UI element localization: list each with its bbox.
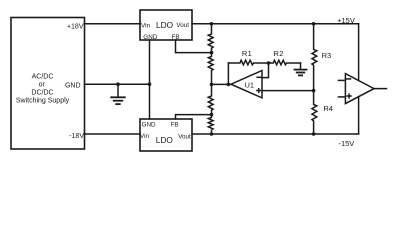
op-amp U2 non-inverting input stub	[339, 96, 346, 98]
svg-text:R4: R4	[323, 104, 333, 113]
minus sign U2	[347, 78, 351, 80]
svg-text:Vin: Vin	[141, 23, 150, 30]
wire -15V rail rise to op-amp V-	[358, 97, 360, 134]
op-amp U1 (points left)	[231, 71, 262, 98]
svg-text:AC/DC: AC/DC	[32, 74, 54, 81]
svg-text:FB: FB	[171, 34, 179, 41]
wire +15V rail drop to op-amp V+	[358, 24, 360, 81]
resistor R2	[269, 60, 301, 65]
wire U1 feedback drop (output to R1)	[227, 63, 229, 84]
svg-text:-15V: -15V	[338, 139, 354, 148]
svg-text:GND: GND	[142, 122, 156, 129]
node FB tap bottom	[210, 113, 214, 117]
svg-text:Vout: Vout	[176, 22, 189, 29]
wire GND from supply box	[85, 83, 150, 85]
svg-text:-18V: -18V	[69, 133, 84, 140]
resistor R1	[228, 60, 268, 65]
node R1 feedback junction	[227, 83, 231, 87]
svg-text:GND: GND	[65, 82, 81, 89]
svg-text:R2: R2	[274, 49, 284, 58]
svg-text:R3: R3	[322, 51, 332, 60]
AC/DC supply box	[11, 18, 85, 150]
node GND rail LDO column	[148, 82, 152, 86]
svg-text:DC/DC: DC/DC	[31, 90, 53, 97]
wire U1 output to divider mid node	[212, 83, 232, 85]
svg-text:+15V: +15V	[337, 16, 355, 25]
svg-text:Vin: Vin	[140, 133, 149, 140]
wire U1 non-inverting input to R3R4 mid node	[262, 90, 314, 92]
ground symbol on GND rail	[111, 84, 125, 104]
node divider mid	[210, 83, 214, 87]
junction dots	[116, 22, 315, 136]
node R4 bottom junction	[312, 132, 316, 136]
bottom LDO U3 box	[140, 119, 192, 151]
svg-text:LDO: LDO	[156, 135, 174, 145]
wire +18V supply to top LDO Vin	[85, 23, 141, 25]
resistor R4	[312, 91, 317, 134]
node R3 top junction	[312, 22, 316, 26]
svg-text:Vout: Vout	[178, 134, 191, 141]
svg-text:FB: FB	[171, 122, 179, 129]
resistor divider (FB tap to mid node)	[208, 53, 213, 85]
wire bottom LDO FB to divider tap	[176, 115, 212, 119]
top LDO U2 box	[140, 10, 192, 40]
op-amp U2 inverting input stub	[339, 79, 346, 81]
wire GND vertical between LDO GND pins	[149, 40, 151, 119]
resistor divider top (Vout to FB tap)	[208, 24, 213, 53]
resistor divider bottom (lower FB tap to Vout-)	[208, 115, 213, 134]
node GND rail ground tap	[116, 82, 120, 86]
node R3R4 mid	[312, 89, 316, 93]
plus sign U2	[347, 94, 351, 98]
svg-text:Switching Supply: Switching Supply	[16, 98, 70, 105]
minus sign U1	[257, 76, 261, 78]
node divider bottom junction	[210, 132, 214, 136]
wire R1R2 junction to U1 inverting input	[262, 63, 269, 78]
op-amp U2 right (points right)	[345, 74, 374, 104]
wire top LDO Vout to +15V rail	[192, 23, 359, 25]
wire bottom LDO Vout to -15V rail	[192, 133, 359, 135]
svg-text:+18V: +18V	[67, 24, 84, 31]
node R1R2 junction	[267, 61, 271, 65]
op-amp U2 output stub	[374, 88, 387, 90]
svg-text:LDO: LDO	[156, 20, 174, 30]
node divider top junction	[210, 22, 214, 26]
resistor R3	[312, 24, 317, 91]
wire -18V supply to bottom LDO Vin	[85, 133, 141, 135]
wire top LDO FB to divider tap	[176, 40, 212, 53]
ground symbol at R2	[295, 63, 307, 75]
node FB tap top	[210, 51, 214, 55]
resistor divider (mid node to lower FB tap)	[208, 84, 213, 114]
svg-text:or: or	[39, 82, 46, 89]
plus sign U1	[257, 89, 261, 93]
svg-text:GND: GND	[143, 34, 157, 41]
svg-text:R1: R1	[242, 49, 252, 58]
svg-text:U1: U1	[245, 80, 255, 89]
